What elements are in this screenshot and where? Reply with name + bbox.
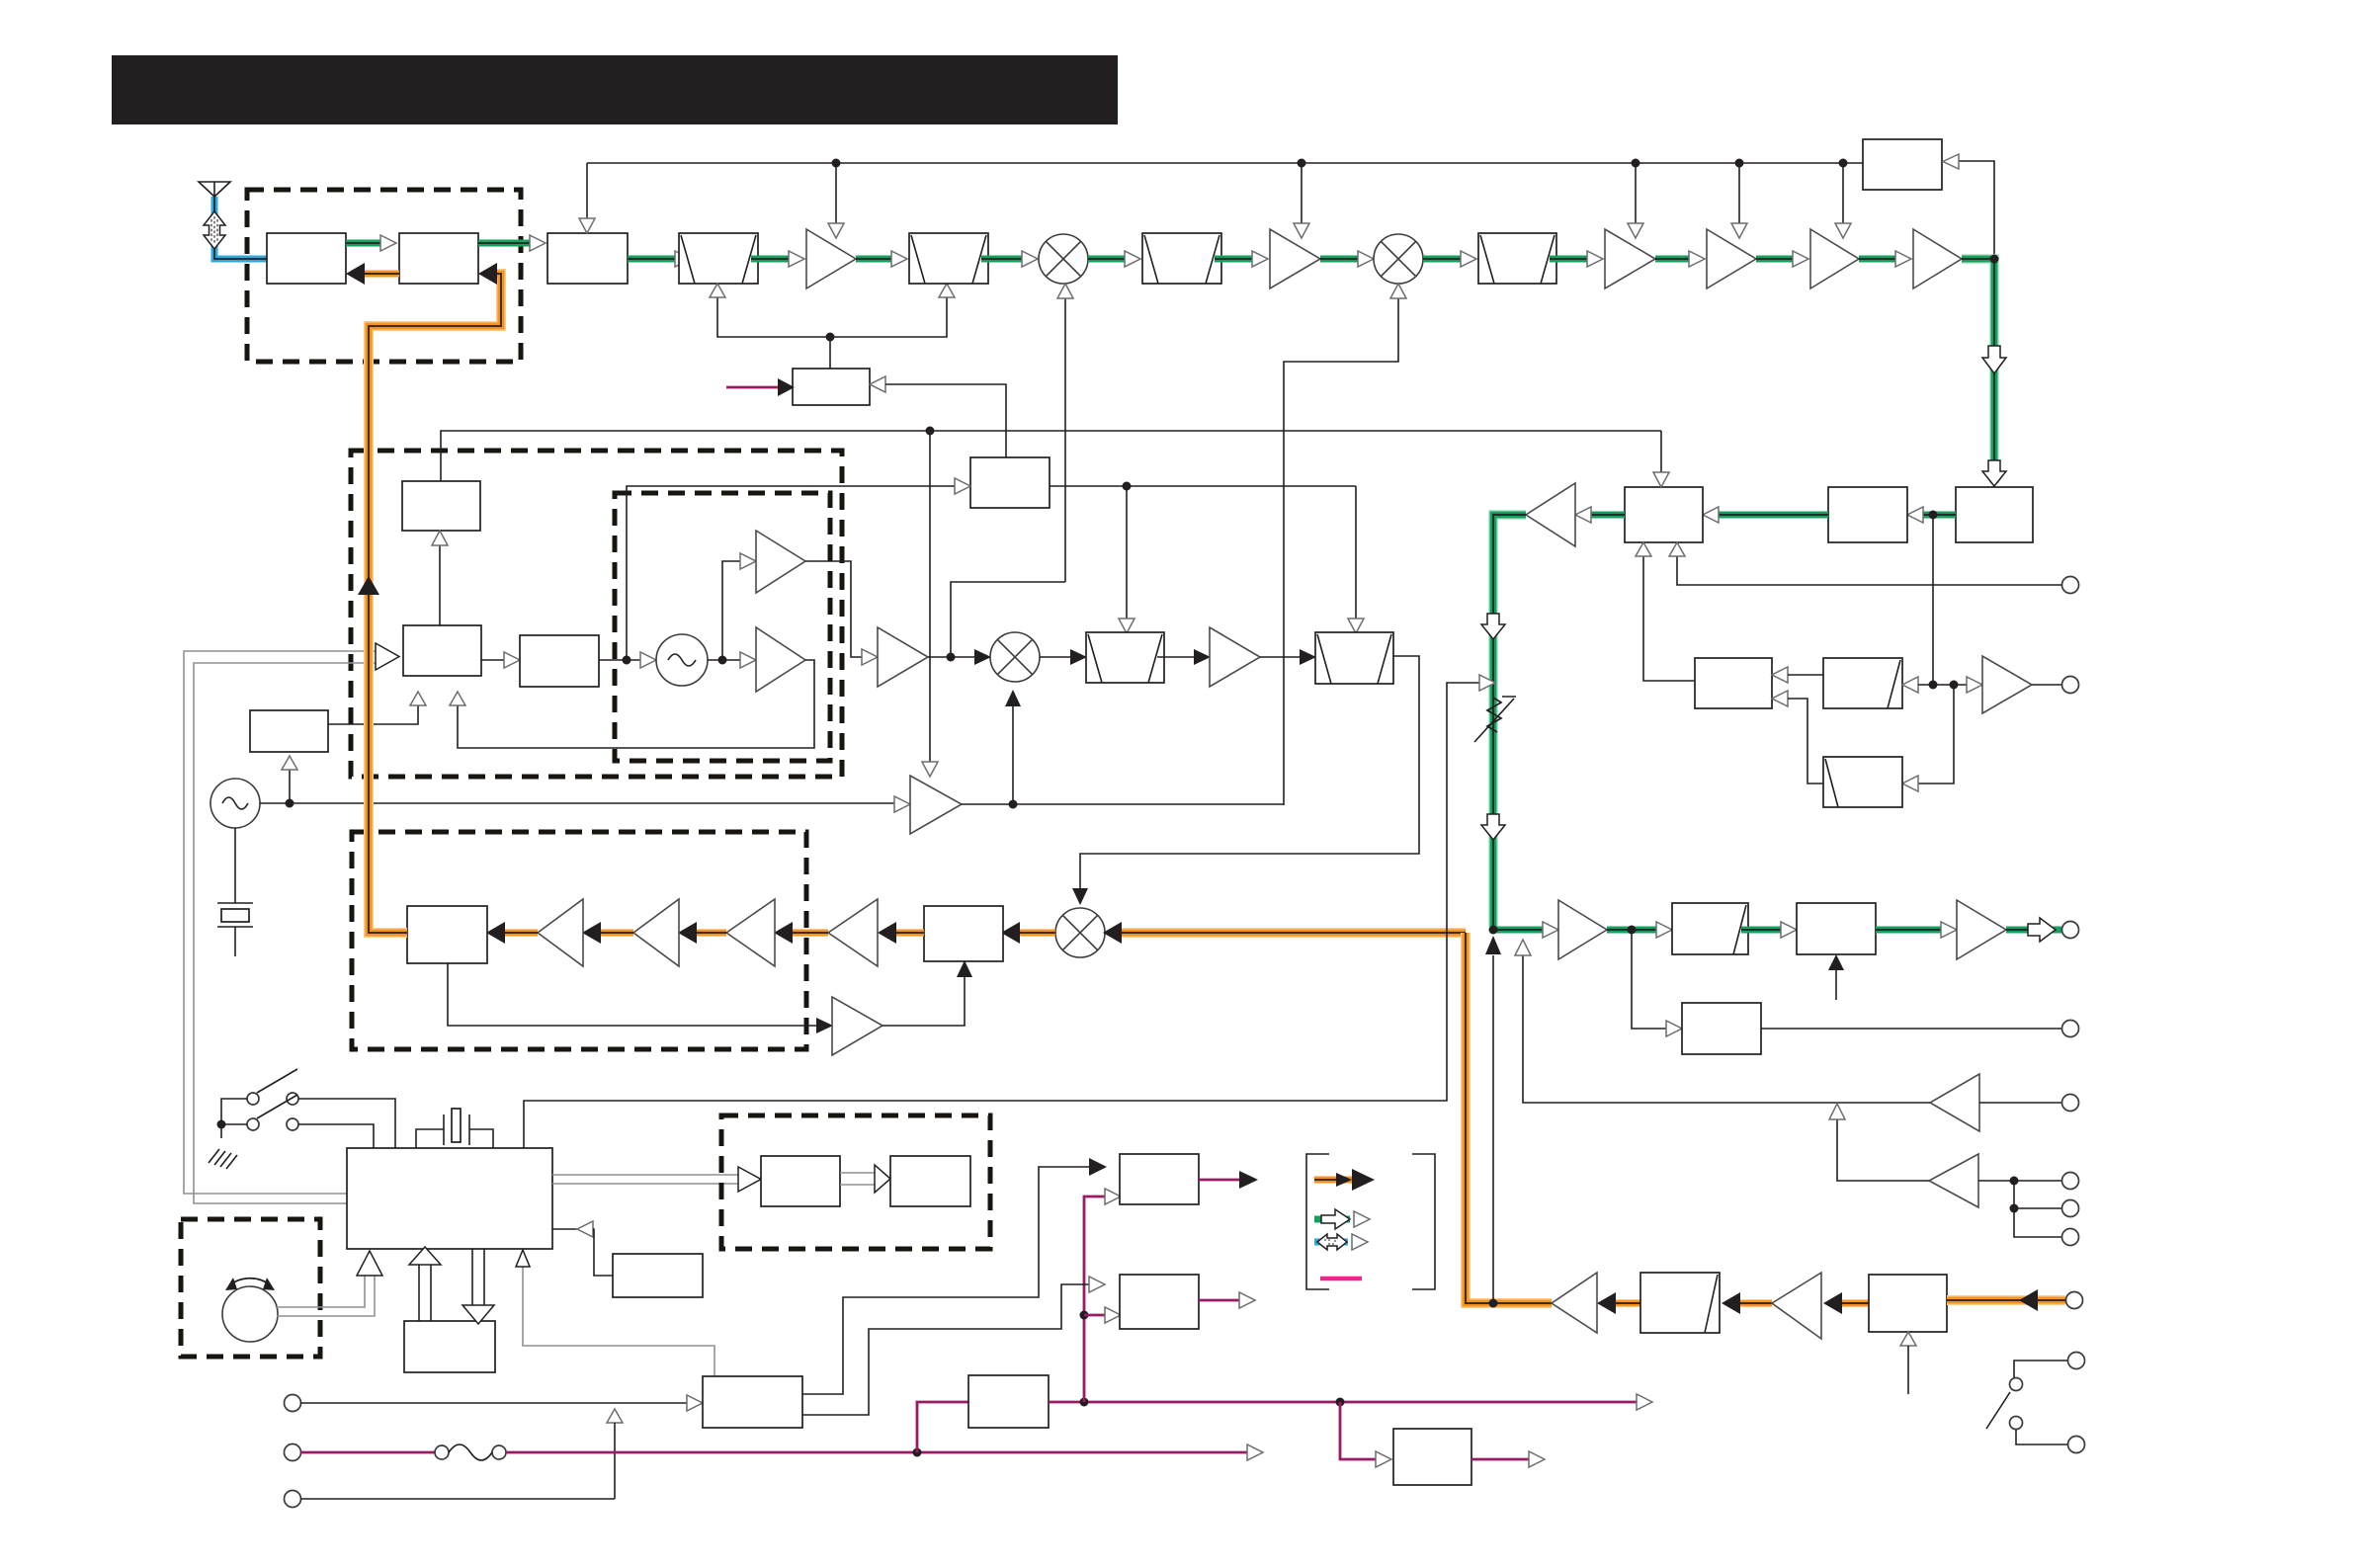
wire B4 bottom right to terminal (1669, 542, 2061, 585)
wire orange T4 to amp2 (1823, 1292, 1869, 1314)
wire det upper input (1772, 667, 1823, 683)
switch accessory switch (1986, 1361, 2067, 1444)
wire squelch line down (1932, 515, 1934, 685)
amp TX IF amp 2 (1210, 627, 1260, 687)
wire ALC loop input (448, 963, 833, 1033)
wire green RX 2 (478, 235, 546, 251)
wire keyer to TX switch 1 (802, 1158, 1107, 1394)
terminal line out (2062, 1021, 2079, 1037)
wire AGC long line (441, 427, 1661, 482)
wire ALC to drive block (882, 960, 972, 1026)
wire magenta TX sw1 out (1199, 1171, 1258, 1189)
wire green RX 11 (1550, 251, 1603, 267)
terminal aux 2 (2062, 1229, 2079, 1246)
wire orange TX feed vertical (1466, 933, 1552, 1303)
block AGC detector (1863, 139, 1942, 190)
wire PLL IC to sub loop (328, 692, 426, 724)
wire orange to lpf (486, 922, 538, 944)
wire driver to LCD arrow (840, 1165, 890, 1193)
wire orange TX to antenna switch (358, 263, 501, 933)
terminal sw down (2068, 1437, 2085, 1453)
wire green RX row3 b (1607, 922, 1672, 938)
block detector (1695, 658, 1772, 708)
wire ref osc output (708, 652, 756, 668)
block key logic (703, 1376, 802, 1428)
block RX att (399, 233, 478, 284)
wire ref feedback loop (450, 660, 814, 748)
wire green RX down to 2nd row (1962, 255, 2006, 487)
block TX drive block (924, 906, 1003, 961)
wire loop filter from PLL IC (432, 531, 448, 625)
wire line out (1761, 1028, 2061, 1030)
wire orange amp2 to T3 (1722, 1292, 1772, 1314)
oscillator master osc (210, 779, 260, 828)
terminal key jack 1 (285, 1395, 301, 1412)
wire sub loop from osc1 (282, 756, 297, 803)
wire 1st LO injection (1057, 284, 1073, 582)
amp TX driver 2 (726, 899, 775, 966)
block loop filter (402, 481, 480, 531)
legend bracket (1306, 1154, 1435, 1289)
wire PTT common (217, 1099, 248, 1138)
wire osc into LO buffer (894, 796, 910, 812)
filter 2nd IF filter (1478, 233, 1556, 284)
filter BPF2 (909, 233, 988, 284)
wire key line 1 (300, 1395, 703, 1499)
wire tap to line amp (1632, 930, 1682, 1036)
wire TX buffer control (922, 431, 938, 777)
wire green RX 13 (1756, 251, 1808, 267)
block antenna switch (267, 233, 346, 284)
dashed box dial unit (181, 1219, 320, 1357)
legend green RX arrow (1314, 1209, 1370, 1229)
block IF unit (1625, 487, 1703, 542)
wire monitor amp2 input (1978, 1177, 2061, 1186)
wire green RX row3 d (1876, 922, 1957, 938)
wire green RX 8 (1215, 251, 1268, 267)
amp TX driver 3 (633, 899, 679, 966)
block line amp (1682, 1003, 1761, 1054)
wire key line to RX mute (524, 675, 1495, 1148)
legend orange TX arrow (1314, 1169, 1375, 1191)
wire green RX 12 (1655, 251, 1705, 267)
wire CPU aux gray line (516, 1250, 714, 1376)
amp RF amp (806, 163, 856, 289)
wire AGC amp output (870, 376, 1006, 457)
wire green RX 1 (346, 235, 396, 251)
wire AGC rail (587, 159, 1863, 168)
wire green RX row2 B2 to B3 (1907, 507, 1956, 523)
wire green RX out to speaker (2006, 918, 2061, 942)
wire BPF1 control (710, 284, 955, 369)
wire green RX 4 (751, 251, 804, 267)
amp ref buffer (756, 531, 805, 593)
block AF amp block (1797, 903, 1876, 954)
block regulator (968, 1375, 1049, 1428)
wire CPU display bus (552, 1167, 761, 1192)
crystal CPU clock (416, 1109, 493, 1148)
coax double-arrow symbol (204, 211, 225, 249)
terminal monitor in 1 (2062, 1095, 2079, 1112)
dashed box PLL unit (351, 451, 842, 777)
wire TX amp out node (928, 649, 991, 665)
wire ref to PLL data line (627, 486, 955, 660)
block TX LPF (407, 906, 487, 963)
block DDS (970, 457, 1050, 508)
mixer 2nd RX mixer (1374, 234, 1423, 284)
wire green RX row2 B3 to B4 (1703, 507, 1828, 523)
title bar (112, 55, 1118, 124)
filter TX filter 1 (1086, 632, 1164, 683)
amp noise amp (1982, 656, 2032, 713)
wire ref buffer input (722, 553, 756, 660)
block memory (404, 1321, 495, 1372)
wire green RX row3 c (1741, 922, 1797, 938)
wire key mute riser (1485, 936, 1501, 1308)
wire green RX 10 (1423, 251, 1476, 267)
switch PTT (247, 1069, 298, 1130)
oscillator reference osc (656, 634, 708, 686)
wire keyer to TX switch 2 (802, 1277, 1105, 1415)
wire TX f1 to amp (1157, 649, 1211, 665)
dashed box reference osc unit (615, 493, 830, 761)
dial tuning dial (222, 1278, 278, 1342)
block RX input filter (547, 233, 628, 284)
wire TX a2 to filter2 (1260, 649, 1316, 665)
terminal IF out (2062, 577, 2079, 594)
filter TX filter 2 (1315, 632, 1393, 684)
wire PLL IC to ref divider (481, 652, 520, 668)
amp TX driver 1 (828, 899, 878, 966)
amp AF preamp (1558, 900, 1607, 959)
wire monitor amp1 input (1979, 1102, 2061, 1104)
legend magenta line (1320, 1277, 1362, 1281)
wire aux terminals (2010, 1181, 2062, 1237)
filter ceramic filter 2 (1823, 757, 1902, 807)
block keyer (613, 1254, 703, 1297)
wire sidetone line to RX (1515, 940, 1930, 1103)
wire magenta to reg (917, 1402, 968, 1452)
dashed box TX unit (352, 832, 806, 1049)
filter AF filter (1672, 903, 1748, 954)
amp monitor amp 1 (1930, 1074, 1979, 1131)
wire green RX 9 (1320, 251, 1374, 267)
wire 2nd LO injection (1284, 284, 1406, 805)
variable resistor on RX line (1474, 697, 1516, 742)
wire B4 bottom left to detector (1636, 542, 1695, 681)
terminal TX in (2066, 1292, 2083, 1309)
wire PLL serial bus from CPU (184, 643, 399, 1203)
mixer TX mixer 1 (990, 632, 1040, 682)
wire orange to driver4 (582, 922, 633, 944)
block TX switch 1 (1120, 1154, 1199, 1204)
crystal master xtal (217, 828, 253, 956)
wire CPU to memory arrow down (462, 1249, 494, 1324)
antenna (199, 182, 230, 197)
block AGC amp (793, 369, 870, 405)
wire CPU right input from E1 (552, 1221, 613, 1276)
wire green RX 7 (1088, 251, 1140, 267)
wire to terminal noise out (2032, 684, 2061, 686)
wire BFO to TX amp (805, 561, 878, 665)
block noise blanker (1956, 487, 2033, 542)
wire DDS input tri (955, 478, 970, 494)
amp 1st IF amp (1270, 163, 1320, 289)
terminal noise out (2062, 677, 2079, 694)
wire AGC det input (1943, 154, 1994, 259)
wire magenta TX sw2 out (1199, 1292, 1255, 1308)
wire magenta to sub reg (1340, 1402, 1391, 1467)
wire IF unit control from rail (1653, 431, 1669, 487)
wire green RX row2 corner down (1481, 515, 1526, 927)
filter 1st IF filter (1142, 233, 1221, 284)
block PLL IC (403, 625, 481, 676)
amp IF amp 5 (1913, 229, 1962, 289)
wire DDS output line (1050, 482, 1364, 634)
wire green RX 14 (1859, 251, 1911, 267)
filter BPF1 (679, 233, 758, 284)
amp monitor amp 2 (1929, 1154, 1978, 1207)
wire orange TX return B to A (346, 263, 399, 285)
white arrow on RX line (1481, 814, 1505, 840)
block sub loop (250, 710, 328, 752)
ground PTT ground (209, 1149, 237, 1169)
amp TX IF amp (878, 627, 928, 687)
wire magenta power line (300, 1444, 1263, 1460)
amp TX buffer 2 (1772, 1273, 1821, 1339)
wire monitor amp2 output merge (1829, 1104, 1929, 1181)
wire green RX 6 (981, 251, 1038, 267)
wire TX mixer1 LO (1005, 690, 1021, 805)
wire TX filter2 to TX mixer2 (1072, 656, 1419, 905)
amp ALC amp (832, 997, 882, 1055)
block display driver (761, 1156, 840, 1206)
wire master osc output (260, 799, 894, 808)
wire orange from TX terminal (1947, 1289, 2065, 1311)
wire orange drive to amp (878, 922, 924, 944)
wire to filter 2 (1902, 685, 1954, 791)
wire blue antenna feed (214, 197, 267, 259)
legend blue both arrow (1314, 1234, 1368, 1250)
wire orange M4 to driver box (1001, 922, 1055, 944)
wire green RX 5 (856, 251, 907, 267)
wire orange to driver2 (774, 922, 828, 944)
mixer 1st RX mixer (1039, 234, 1088, 284)
wire TX input control (1900, 1332, 1916, 1394)
filter TX bpf bottom (1640, 1273, 1720, 1333)
terminal sw up (2068, 1353, 2085, 1369)
wire orange to driver3 (678, 922, 726, 944)
wire det lower input (1772, 691, 1823, 784)
terminal aux 1 (2062, 1200, 2079, 1217)
wire magenta supply riser (1080, 1189, 1122, 1402)
wire ref osc node (599, 652, 656, 668)
wire dial to CPU (277, 1251, 382, 1316)
wire green RX 3 (628, 251, 691, 267)
amp LO buffer (910, 776, 962, 834)
block 2nd IF amp (1828, 487, 1907, 542)
block CPU (347, 1148, 552, 1249)
terminal speaker (2062, 922, 2079, 939)
wire magenta reg out (1049, 1394, 1652, 1410)
mixer TX mixer 2 (1055, 908, 1105, 957)
wire LO distribution (962, 800, 1284, 809)
wire green RX row3 start (1489, 922, 1559, 938)
wire PTT contacts to CPU (298, 1099, 395, 1148)
terminal DC power (285, 1444, 301, 1461)
amp ref feedback (756, 627, 805, 692)
wire control rail to block top (579, 163, 595, 233)
wire key line 2 (300, 1498, 615, 1500)
wire AGC amp magenta input (726, 378, 795, 396)
wire 1st LO riser (951, 582, 1065, 657)
dashed box display unit (721, 1115, 990, 1249)
wire AF amp bottom input (1828, 954, 1844, 1000)
dashed box front-end unit (247, 190, 521, 362)
wire memory to CPU arrow up (409, 1247, 441, 1321)
wire filter1 input (1902, 677, 1982, 693)
amp IF amp 2 (1605, 163, 1655, 289)
block sub regulator (1393, 1429, 1471, 1485)
wire orange TX row right (1103, 922, 1466, 944)
filter ceramic filter 1 (1823, 658, 1902, 708)
amp AF power amp (1957, 900, 2006, 959)
amp IF amp 3 (1707, 163, 1756, 289)
block TX input block (1869, 1275, 1947, 1332)
terminal key jack 2 (285, 1491, 301, 1508)
block reference divider (520, 635, 599, 687)
wire TX m1 to filter (1040, 649, 1087, 665)
terminal monitor in 2 (2062, 1173, 2079, 1190)
wire orange T3 to amp (1597, 1292, 1640, 1314)
block TX switch 2 (1120, 1275, 1199, 1329)
amp TX power amp (538, 899, 583, 966)
wire green RX row2 B4 to amp (1575, 507, 1625, 523)
block LCD (890, 1156, 970, 1206)
amp TX buffer left (1552, 1273, 1597, 1333)
amp 2nd IF amp left (1526, 483, 1575, 546)
amp IF amp 4 (1810, 163, 1859, 289)
wire magenta sub reg out (1471, 1451, 1545, 1467)
